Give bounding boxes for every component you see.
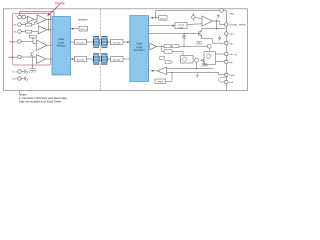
- svg-text:deadtime: deadtime: [78, 19, 89, 22]
- resistor R6: [172, 45, 179, 48]
- wire Encode2 to C4: [107, 58, 110, 60]
- wire V1 to driver input: [193, 18, 202, 21]
- wires sense block to pins: [216, 54, 225, 62]
- cap glyph near pin: [218, 35, 221, 41]
- pin P15: [225, 80, 229, 84]
- capacitor C1: [94, 36, 99, 47]
- pin P3 IN-: [18, 30, 22, 34]
- decoupling glyph at P6: [21, 70, 28, 75]
- ground G1: [29, 69, 36, 73]
- svg-text:Vge: Vge: [229, 62, 234, 64]
- wire P1 to buffer A: [26, 16, 28, 19]
- svg-text:Logic: Logic: [179, 27, 184, 29]
- comparator D: [36, 40, 47, 51]
- svg-text:VREF: VREF: [157, 82, 163, 84]
- wire VREF to F input: [166, 72, 173, 81]
- comparator B: [37, 15, 46, 24]
- transistor glyph M5: [200, 59, 204, 64]
- gate logic primary block U1: [52, 17, 71, 76]
- wire to R5: [162, 46, 183, 56]
- wire Encode to C1: [87, 41, 94, 43]
- box VREF: [155, 79, 166, 84]
- wire I4 down to sense box: [208, 48, 210, 51]
- ground hatch under M2: [196, 42, 202, 46]
- svg-text:Primary: Primary: [57, 44, 67, 48]
- svg-text:UVLO: UVLO: [160, 18, 166, 20]
- comparator E: [36, 55, 45, 64]
- svg-text:Vdrv+: Vdrv+: [229, 33, 235, 36]
- wire T1 output to pin: [212, 21, 224, 25]
- reference source V1: [192, 15, 196, 19]
- capacitor C4: [102, 53, 107, 64]
- right pin rail: [225, 11, 227, 91]
- svg-text:Vdrv: Vdrv: [229, 42, 234, 45]
- comparator C: [38, 26, 47, 34]
- resistor R3: [30, 35, 37, 38]
- svg-text:Encode: Encode: [77, 42, 85, 44]
- comparator F input lower: [167, 72, 225, 74]
- resistor R2: [26, 30, 32, 33]
- svg-text:Vddm: Vddm: [229, 75, 235, 77]
- tie wire between rows: [48, 19, 50, 29]
- wire C2 to Decode1: [107, 41, 110, 43]
- box current sense block: [204, 52, 216, 65]
- wire P4 to comparator D: [21, 37, 52, 46]
- wire clamp to driver input: [187, 23, 202, 26]
- wire U1 to Encode: [71, 41, 75, 43]
- svg-text:Logic: Logic: [136, 45, 143, 49]
- pin P7 GND1: [18, 77, 22, 81]
- wire buffer A to comparator B: [34, 18, 37, 20]
- pin P8 VDD2 inline: [220, 9, 224, 13]
- current source I2: [195, 58, 199, 62]
- outer frame: [4, 9, 248, 91]
- wire M2 source to pin: [202, 39, 225, 44]
- svg-text:Vcc1: Vcc1: [12, 72, 18, 74]
- VDD2 rail: [156, 11, 227, 18]
- wire U2 to M2 gate: [149, 33, 199, 35]
- buffer A: [28, 16, 35, 22]
- comparator F input upper: [167, 68, 214, 70]
- wire P2-R1-B: [21, 22, 37, 25]
- svg-text:Gnd: Gnd: [229, 82, 234, 84]
- svg-text:ENABLE: ENABLE: [8, 56, 17, 59]
- arrow UVLO1 to U1: [73, 28, 80, 30]
- wire R4 to R6: [171, 45, 172, 47]
- box Decode (channel 1): [111, 39, 124, 44]
- glyph small box above F: [160, 57, 174, 64]
- wire R6 to node: [179, 45, 207, 47]
- wire down from enable net to ground: [32, 57, 34, 69]
- box UVLO2: [159, 16, 167, 21]
- wire from P1 up and over to logic block: [20, 12, 55, 17]
- svg-text:Vdrv_gl: Vdrv_gl: [229, 53, 237, 56]
- wire M2 drain to rail: [202, 28, 226, 30]
- svg-text:UVLO: UVLO: [80, 29, 86, 31]
- capacitor C3: [94, 53, 99, 64]
- svg-text:Encode: Encode: [113, 59, 121, 61]
- resistor R1: [26, 23, 32, 26]
- box UVLO1: [79, 26, 88, 31]
- pin P10: [225, 32, 229, 36]
- driver comparator T1: [202, 16, 212, 26]
- arrow comparator F to U2: [152, 70, 157, 72]
- pin P1 circle: [18, 15, 22, 19]
- wire C3 to Decode2: [87, 58, 94, 60]
- current source I3: [206, 54, 211, 59]
- pin P5 EN: [18, 55, 22, 59]
- wire P5 to comparator E and output: [21, 57, 52, 59]
- red annotation arrow: [49, 6, 59, 15]
- svg-text:IN-: IN-: [14, 32, 17, 34]
- stub to ground tick: [196, 72, 200, 77]
- resistor R5: [164, 50, 172, 53]
- resistor R4: [164, 45, 171, 48]
- svg-text:RESET: RESET: [10, 42, 18, 44]
- svg-text:Gnd1: Gnd1: [12, 79, 18, 81]
- capacitor C2: [102, 36, 107, 47]
- box Encode (channel 2): [111, 56, 124, 61]
- decoupling glyph at P7: [21, 77, 28, 82]
- pin P14: [225, 73, 229, 77]
- svg-text:Decode: Decode: [77, 59, 85, 61]
- pin P6 VCC1: [18, 70, 22, 74]
- svg-text:Side are isolated from Each Ot: Side are isolated from Each Other.: [19, 100, 62, 104]
- arrow Decode1 to U2: [123, 41, 128, 43]
- gate logic secondary block U2: [130, 16, 149, 82]
- arrow rail to U2: [152, 17, 155, 19]
- svg-text:Decode: Decode: [113, 42, 121, 44]
- svg-text:(Second.): (Second.): [134, 48, 145, 52]
- current source I4 inline: [207, 44, 211, 48]
- pin P12: [225, 52, 229, 56]
- driver triangle T2: [150, 43, 157, 50]
- pin P2 IN+: [18, 23, 22, 27]
- pin P11: [225, 41, 229, 45]
- pin P13: [225, 60, 229, 64]
- decoupling glyph near top right pin: [217, 15, 220, 20]
- box Decode (channel 2): [75, 56, 87, 61]
- ground G3: [201, 64, 207, 68]
- arrow Decode2 to U1: [72, 58, 74, 60]
- comparator F (feedback, points left): [157, 67, 167, 75]
- note leader tick: [19, 91, 21, 94]
- svg-text:Gate: Gate: [136, 41, 142, 45]
- wire U2 to clamp: [149, 25, 174, 27]
- wire T1 output down to drain node: [216, 21, 218, 29]
- curl wire to pin: [219, 77, 227, 82]
- current source I1: [22, 15, 26, 19]
- transistor M2: [199, 29, 202, 39]
- wire to UVLO2: [156, 17, 159, 19]
- red highlight box around input stage: [12, 14, 50, 66]
- wire comparator B output to logic: [46, 18, 52, 20]
- svg-text:IN+: IN+: [14, 25, 18, 27]
- wire comparator C output to logic: [47, 29, 52, 31]
- transistor M6 hanging from gate net: [182, 34, 186, 47]
- box clamp logic: [175, 22, 187, 28]
- pin P9 OUT sense: [225, 23, 229, 27]
- svg-text:Digital: Digital: [55, 2, 65, 6]
- svg-text:Vdd2: Vdd2: [229, 13, 235, 15]
- isolation barrier dashed line: [99, 9, 101, 90]
- wire T2 output: [157, 45, 165, 47]
- transistor Q1: [31, 51, 34, 57]
- wire P3-R2-C: [21, 31, 38, 33]
- svg-text:DIGITAL_SENSE: DIGITAL_SENSE: [229, 24, 247, 27]
- box A with circle: [181, 56, 194, 64]
- pin P4 RESET: [18, 40, 22, 44]
- svg-text:Clamp: Clamp: [178, 24, 185, 26]
- wire U2 to Encode2: [123, 58, 130, 60]
- box Encode (channel 1): [75, 39, 87, 44]
